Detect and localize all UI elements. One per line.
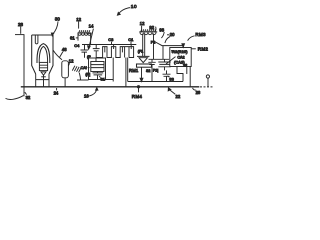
- wire 20 diagonal: [154, 41, 184, 59]
- label S1: [99, 76, 105, 81]
- component box P/S1: [89, 58, 106, 80]
- figure pointer 10: [117, 4, 136, 15]
- label 12 transformer: [140, 21, 145, 31]
- svg-text:92: 92: [149, 25, 154, 30]
- label 16: [84, 88, 98, 99]
- label 61: [70, 36, 78, 41]
- bus bottom: [21, 86, 200, 88]
- capacitor A: [148, 59, 155, 81]
- capacitor C4: [74, 43, 88, 58]
- terminal stub: [207, 78, 209, 87]
- label 26: [193, 88, 201, 95]
- rail top: [82, 44, 136, 46]
- label 20: [165, 32, 175, 43]
- wire right vertical: [189, 67, 191, 87]
- relay rect: [91, 62, 104, 72]
- wire right of box: [112, 58, 114, 82]
- stem into relay: [95, 58, 97, 62]
- wire left vertical: [23, 35, 25, 97]
- transformer core hatch: [139, 29, 157, 32]
- svg-text:S2: S2: [146, 69, 150, 73]
- label 30: [51, 17, 60, 36]
- svg-text:C4: C4: [74, 43, 80, 48]
- cap row top link: [149, 58, 170, 60]
- inner rail left: [77, 79, 89, 81]
- svg-text:98: 98: [159, 28, 164, 33]
- svg-text:12: 12: [76, 17, 81, 22]
- inductor 61 coil: [78, 33, 91, 35]
- label S3: [168, 76, 174, 82]
- junction RM4: [137, 86, 139, 93]
- inner rail right: [128, 81, 183, 83]
- label RM3: [188, 32, 206, 41]
- svg-text:RM2: RM2: [198, 46, 209, 51]
- svg-text:R3(R20): R3(R20): [172, 50, 187, 54]
- capacitor mid: [93, 45, 100, 59]
- lamp electrode bar: [41, 76, 46, 78]
- label CA1: [81, 66, 90, 70]
- svg-text:12: 12: [69, 59, 74, 64]
- lamp 30 envelope: [32, 35, 53, 74]
- dashed tail wire: [200, 86, 213, 88]
- capacitor block B: [158, 59, 170, 70]
- terminal circle: [206, 75, 209, 78]
- label 92: [149, 25, 156, 32]
- svg-text:(P: (P: [87, 55, 91, 59]
- svg-text:CA2: CA2: [177, 56, 184, 60]
- svg-text:24: 24: [54, 91, 59, 96]
- transformer legs: [143, 34, 154, 60]
- svg-text:28: 28: [18, 22, 23, 27]
- wire box jog: [177, 67, 187, 82]
- svg-text:10: 10: [131, 4, 137, 10]
- label C3: [108, 37, 114, 45]
- svg-text:48: 48: [62, 47, 67, 52]
- switch meander row: [96, 47, 133, 58]
- wire hatch to rail: [79, 73, 80, 80]
- wire 48 curve: [53, 50, 62, 60]
- label 12 lower: [68, 59, 74, 66]
- svg-text:32: 32: [26, 95, 31, 100]
- label 12 top: [76, 17, 81, 29]
- inductor 61 core hatch: [78, 30, 92, 33]
- switch inner posts: [105, 45, 131, 53]
- label 22: [168, 88, 181, 99]
- inner rail mid: [106, 79, 114, 81]
- svg-text:S1: S1: [100, 78, 105, 82]
- svg-text:12: 12: [140, 21, 145, 26]
- box R3 R20: [170, 48, 191, 68]
- wire diagonal to box: [166, 57, 176, 64]
- terminal bar node 28: [15, 34, 24, 36]
- label 28: [18, 22, 23, 34]
- svg-text:22: 22: [176, 94, 181, 99]
- svg-text:20: 20: [170, 32, 175, 37]
- transformer coil: [140, 32, 156, 34]
- lamp top stubs: [35, 35, 38, 44]
- svg-text:RM1: RM1: [129, 68, 139, 73]
- capacitor C below: [163, 70, 171, 81]
- lamp base: [36, 74, 49, 87]
- diode D1: [137, 56, 150, 62]
- svg-text:(P|: (P|: [85, 72, 90, 76]
- resistor block under diode: [137, 64, 152, 67]
- inductor 61 leads: [78, 33, 91, 44]
- label C1: [128, 37, 134, 45]
- label RM2: [191, 46, 208, 51]
- wire lamp stem to bus: [43, 75, 45, 87]
- lamp electrode block: [39, 62, 47, 70]
- svg-text:RM3: RM3: [195, 32, 206, 37]
- svg-text:(F1: (F1: [138, 49, 143, 53]
- capacitor under relay: [93, 72, 104, 80]
- lamp arch inner: [39, 46, 47, 63]
- svg-text:16: 16: [84, 93, 89, 98]
- svg-text:S3: S3: [169, 77, 174, 81]
- junction arrow box top: [182, 44, 185, 48]
- wire double drop: [126, 58, 128, 87]
- label 98: [159, 28, 164, 38]
- svg-text:30: 30: [55, 17, 60, 22]
- hatch marks ground: [72, 66, 81, 73]
- electrode cylinder 12: [62, 61, 69, 87]
- svg-text:P2|: P2|: [153, 68, 158, 72]
- svg-text:CAl: CAl: [81, 66, 87, 70]
- label 24: [54, 88, 59, 96]
- svg-text:C3: C3: [108, 37, 114, 42]
- wire swoosh 32: [6, 96, 24, 100]
- svg-text:26: 26: [196, 90, 201, 95]
- wire arrow to rail RM1: [140, 67, 143, 81]
- label 14: [88, 23, 94, 49]
- svg-text:61: 61: [70, 36, 75, 41]
- label 32: [25, 92, 31, 100]
- label 48: [60, 47, 68, 57]
- svg-text:C1: C1: [128, 37, 134, 42]
- lamp electrode triangle: [41, 72, 46, 75]
- svg-text:RM4: RM4: [132, 94, 143, 99]
- lamp arch outer: [37, 44, 50, 63]
- svg-text:14: 14: [89, 23, 94, 28]
